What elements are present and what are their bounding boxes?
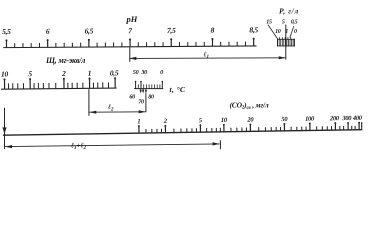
svg-text:0,5: 0,5 bbox=[291, 20, 298, 26]
svg-text:5: 5 bbox=[282, 20, 285, 26]
svg-text:7: 7 bbox=[128, 26, 132, 35]
svg-text:400: 400 bbox=[352, 115, 363, 122]
svg-text:0: 0 bbox=[160, 69, 163, 76]
svg-text:5: 5 bbox=[199, 117, 203, 124]
svg-text:ℓ1: ℓ1 bbox=[203, 51, 210, 61]
svg-text:2: 2 bbox=[163, 118, 168, 125]
svg-text:1: 1 bbox=[88, 69, 92, 78]
svg-text:6,5: 6,5 bbox=[85, 26, 94, 35]
svg-text:0,5: 0,5 bbox=[110, 68, 119, 77]
svg-text:10: 10 bbox=[1, 69, 9, 78]
svg-text:30: 30 bbox=[140, 69, 147, 76]
svg-text:15: 15 bbox=[266, 20, 272, 26]
svg-text:2: 2 bbox=[61, 69, 66, 78]
svg-text:60: 60 bbox=[129, 94, 135, 101]
svg-text:50: 50 bbox=[133, 69, 139, 76]
svg-text:20: 20 bbox=[246, 117, 254, 124]
svg-text:70: 70 bbox=[138, 99, 144, 106]
svg-text:(CO2)св , мг/л: (CO2)св , мг/л bbox=[230, 100, 269, 111]
svg-text:pH: pH bbox=[126, 14, 138, 24]
svg-text:5: 5 bbox=[28, 69, 32, 78]
svg-text:ℓ1+ℓ2: ℓ1+ℓ2 bbox=[70, 141, 87, 151]
dimension line l1+l2 bbox=[5, 140, 220, 151]
svg-text:t, °С: t, °С bbox=[170, 85, 186, 94]
reference line alkalinity=1 bbox=[88, 89, 90, 116]
pH scale bbox=[2, 25, 258, 47]
svg-text:ℓ2: ℓ2 bbox=[107, 103, 114, 113]
svg-text:10: 10 bbox=[275, 29, 281, 35]
svg-text:7,5: 7,5 bbox=[167, 26, 176, 35]
reference line pH=7 bbox=[129, 47, 131, 61]
svg-text:50: 50 bbox=[281, 116, 288, 123]
svg-text:200: 200 bbox=[329, 115, 340, 122]
svg-text:6: 6 bbox=[46, 27, 50, 36]
reference line P bbox=[285, 25, 287, 60]
svg-text:8: 8 bbox=[211, 26, 215, 35]
svg-text:8,5: 8,5 bbox=[249, 25, 258, 34]
svg-text:5,5: 5,5 bbox=[2, 27, 11, 36]
dimension line l2 (alk 1 to t ref) bbox=[89, 103, 145, 114]
svg-text:0: 0 bbox=[294, 29, 297, 35]
P g/l comb scale bbox=[266, 6, 299, 46]
CO2 free scale mg/l bbox=[3, 115, 363, 135]
svg-text:P, г/л: P, г/л bbox=[279, 6, 299, 15]
svg-text:10: 10 bbox=[221, 117, 228, 124]
alkalinity scale Shch, mg-ekv/l bbox=[1, 68, 119, 89]
svg-text:Щ, мг-экв/л: Щ, мг-экв/л bbox=[45, 56, 85, 65]
temperature scale t C bbox=[129, 69, 163, 106]
result pointer vertical at left bbox=[4, 108, 6, 149]
svg-text:1: 1 bbox=[137, 118, 140, 125]
dimension line l1 (pH7 to P comb) bbox=[129, 51, 285, 61]
reference line t=70 bbox=[145, 93, 147, 112]
svg-text:300: 300 bbox=[341, 115, 352, 122]
svg-text:80: 80 bbox=[148, 94, 154, 101]
svg-text:100: 100 bbox=[305, 116, 315, 123]
